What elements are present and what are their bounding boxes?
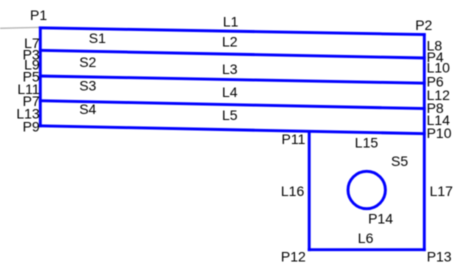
wire L1 <box>39 28 426 35</box>
svg-text:S1: S1 <box>89 30 106 46</box>
svg-text:P12: P12 <box>281 248 306 264</box>
wire left vertical (L7,L9,L11,L13) <box>39 27 42 128</box>
svg-text:L3: L3 <box>222 61 238 77</box>
wire L4 <box>39 101 426 109</box>
wire L6 square bottom side <box>308 248 426 251</box>
svg-text:L4: L4 <box>222 84 238 100</box>
svg-text:P14: P14 <box>368 210 393 226</box>
svg-text:P11: P11 <box>282 131 306 147</box>
wire L5 / L15 <box>39 126 426 134</box>
svg-text:P10: P10 <box>427 125 452 141</box>
svg-text:L6: L6 <box>358 230 374 246</box>
svg-text:P9: P9 <box>23 119 40 135</box>
svg-text:L17: L17 <box>430 183 454 199</box>
svg-text:P1: P1 <box>30 7 47 23</box>
svg-text:P13: P13 <box>427 248 452 264</box>
wire L16 square left side <box>308 130 311 251</box>
svg-text:L1: L1 <box>223 13 239 29</box>
svg-text:S2: S2 <box>79 54 96 70</box>
svg-text:S4: S4 <box>79 101 96 117</box>
svg-text:L2: L2 <box>222 34 238 50</box>
wire right vertical (L8,L10,L12,L14,L17) <box>423 33 426 251</box>
construction axis (gray) <box>0 26 40 29</box>
wire L2 <box>39 50 426 58</box>
svg-text:L16: L16 <box>281 183 305 199</box>
svg-text:L15: L15 <box>355 135 379 151</box>
svg-text:S3: S3 <box>79 77 96 93</box>
svg-text:L5: L5 <box>222 107 238 123</box>
circle P14 <box>348 171 385 208</box>
svg-text:P2: P2 <box>415 17 432 33</box>
wire L3 <box>39 76 426 83</box>
svg-text:S5: S5 <box>391 153 408 169</box>
